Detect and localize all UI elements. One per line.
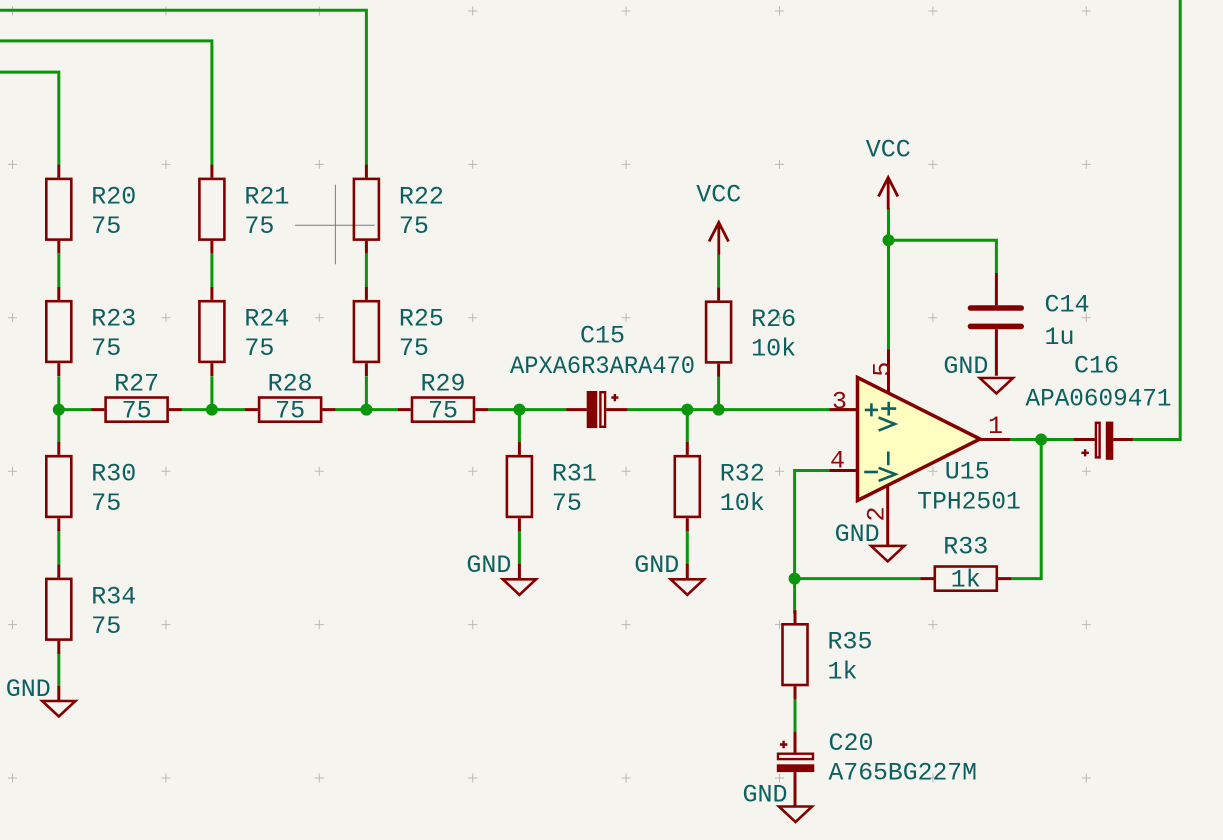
wire VCC to U15 pin 5 (887, 208, 890, 350)
wire R30-R34 (57, 530, 60, 565)
svg-text:75: 75 (275, 397, 305, 426)
wire R23 to bus (57, 376, 60, 409)
wire C16 to right edge (1133, 0, 1180, 440)
svg-text:10k: 10k (720, 489, 765, 518)
resistor R33 (921, 567, 1012, 591)
svg-text:4: 4 (830, 447, 845, 476)
svg-text:VCC: VCC (866, 136, 911, 165)
svg-text:75: 75 (122, 397, 152, 426)
ground below C14 (980, 378, 1013, 394)
wire R26 to VCC (717, 254, 720, 287)
wire from left edge to R21 (0, 41, 212, 165)
svg-text:75: 75 (244, 334, 274, 363)
resistor R22 (354, 165, 379, 254)
junction at (888.5,240.3) (883, 234, 895, 246)
wire bus segment C15 to junction5 (627, 408, 687, 411)
resistor R25 (354, 287, 379, 376)
resistor R35 (783, 610, 808, 699)
capacitor C14 (971, 273, 1022, 376)
wire R35 to C20 (794, 699, 797, 732)
wire VCC branch to C14 (889, 240, 997, 273)
svg-text:10k: 10k (751, 335, 796, 364)
wire bus to R31 (518, 410, 521, 443)
svg-text:GND: GND (634, 551, 679, 580)
svg-text:75: 75 (552, 489, 582, 518)
svg-text:C14: C14 (1045, 291, 1090, 320)
resistor R26 (706, 288, 731, 377)
wire from left edge to R20 (0, 72, 59, 165)
op-amp U15 (858, 378, 981, 501)
wire R22-R25 (365, 254, 368, 288)
svg-text:75: 75 (91, 489, 121, 518)
resistor R21 (199, 165, 224, 254)
svg-text:VCC: VCC (696, 181, 741, 210)
wire bus segment junction5 to junction6 (687, 408, 718, 411)
U15 pin 3 (830, 408, 860, 411)
svg-text:75: 75 (91, 334, 121, 363)
resistor R31 (507, 442, 532, 531)
svg-text:R28: R28 (268, 369, 313, 398)
svg-text:75: 75 (91, 612, 121, 641)
svg-text:GND: GND (6, 675, 51, 704)
wire feedback from output junction to R33 (1011, 440, 1041, 579)
U15 pin 1 (980, 438, 1010, 441)
ground below R31 (503, 564, 536, 595)
wire bus segment R29 to junction4 (488, 408, 519, 411)
junction at (687.3,409.6) (681, 404, 693, 416)
svg-text:75: 75 (244, 212, 274, 241)
svg-text:R35: R35 (828, 628, 873, 657)
svg-text:R21: R21 (244, 182, 289, 211)
svg-text:GND: GND (466, 551, 511, 580)
capacitor C16 (1074, 422, 1133, 460)
svg-text:75: 75 (428, 397, 458, 426)
wire R31 to GND (518, 530, 521, 565)
svg-text:GND: GND (943, 352, 988, 381)
svg-text:A765BG227M: A765BG227M (829, 759, 978, 788)
ground below U15 pin 2 (871, 546, 904, 562)
resistor R30 (46, 442, 71, 531)
wire bus segment junction4 to C15 (519, 408, 566, 411)
svg-text:TPH2501: TPH2501 (917, 488, 1021, 517)
wire R20-R23 (57, 254, 60, 288)
svg-text:1k: 1k (828, 657, 858, 686)
wire bus segment R28 to junction3 (335, 408, 366, 411)
junction at (1041.2,439.5) (1035, 434, 1047, 446)
wire bus to R32 (686, 410, 689, 443)
svg-text:C20: C20 (829, 729, 874, 758)
wire bus to R26 (717, 376, 720, 409)
wire bus segment junction3 to R29 (366, 408, 397, 411)
U15 pin 2 (886, 485, 889, 546)
svg-text:C15: C15 (580, 321, 625, 350)
svg-text:APA0609471: APA0609471 (1026, 385, 1172, 414)
svg-text:R27: R27 (114, 369, 159, 398)
svg-text:1k: 1k (951, 566, 981, 595)
resistor R29 (398, 398, 489, 422)
svg-text:GND: GND (742, 781, 787, 810)
wire bus segment junction2 to R28 (212, 408, 245, 411)
junction at (519.4,409.6) (513, 404, 525, 416)
junction at (58.8,409.6) (53, 404, 65, 416)
svg-text:75: 75 (91, 212, 121, 241)
resistor R24 (199, 287, 224, 376)
U15 internal V+ marks (865, 402, 896, 431)
svg-text:R24: R24 (244, 305, 289, 334)
wire from left edge to R22 (0, 10, 366, 165)
wire U15 output to C16 (1010, 438, 1074, 441)
svg-text:R25: R25 (399, 305, 444, 334)
svg-text:U15: U15 (945, 458, 990, 487)
svg-text:R32: R32 (720, 460, 765, 489)
resistor R20 (46, 165, 71, 254)
wire bus to R30 (57, 410, 60, 443)
junction at (366.4,409.6) (360, 404, 372, 416)
resistor R32 (675, 442, 700, 531)
svg-text:R34: R34 (91, 582, 136, 611)
svg-text:1u: 1u (1045, 323, 1075, 352)
U15 pin 4 (830, 469, 860, 472)
wire R25 to bus (365, 376, 368, 409)
wire bus segment junction6 to U15 pin 3 (719, 408, 856, 411)
wire bus segment R27 to junction2 (182, 408, 212, 411)
svg-text:GND: GND (835, 520, 880, 549)
U15 pin 5 (887, 350, 890, 394)
ground below R34 (42, 686, 75, 717)
svg-text:75: 75 (399, 334, 429, 363)
junction at (718.6,409.6) (713, 404, 725, 416)
svg-text:1: 1 (988, 412, 1003, 441)
wire R24 to bus (210, 376, 213, 409)
svg-text:3: 3 (832, 388, 847, 417)
wire node to U15 pin 4 (795, 471, 830, 579)
ground below R32 (671, 564, 704, 595)
resistor R34 (46, 565, 71, 654)
svg-text:R20: R20 (91, 182, 136, 211)
svg-text:R33: R33 (943, 533, 988, 562)
ground below C20 (779, 807, 812, 823)
svg-text:2: 2 (863, 506, 892, 521)
svg-text:R31: R31 (552, 460, 597, 489)
svg-text:APXA6R3ARA470: APXA6R3ARA470 (510, 352, 695, 381)
wire R34 to GND (57, 653, 60, 688)
resistor R27 (91, 398, 182, 422)
svg-text:R30: R30 (91, 460, 136, 489)
svg-text:R29: R29 (420, 369, 465, 398)
capacitor C20 (777, 732, 815, 807)
power VCC above U15 (879, 178, 898, 210)
wire bus segment junction1 to R27 (59, 408, 92, 411)
svg-text:75: 75 (399, 212, 429, 241)
wire R21-R24 (210, 254, 213, 288)
wire node to R35 (793, 579, 796, 614)
svg-text:R23: R23 (91, 305, 136, 334)
capacitor C15 (566, 391, 627, 428)
power VCC above R26 (709, 223, 728, 255)
junction at (794.6,578.6) (789, 573, 801, 585)
svg-text:C16: C16 (1074, 352, 1119, 381)
resistor R28 (245, 398, 336, 422)
wire R32 to GND (686, 530, 689, 565)
wire R33 to feedback node (795, 577, 921, 580)
svg-text:R22: R22 (399, 182, 444, 211)
resistor R23 (46, 287, 71, 376)
svg-text:R26: R26 (751, 305, 796, 334)
U15 internal V- marks (864, 452, 895, 481)
svg-text:5: 5 (869, 362, 898, 377)
junction at (211.9,409.6) (206, 404, 218, 416)
